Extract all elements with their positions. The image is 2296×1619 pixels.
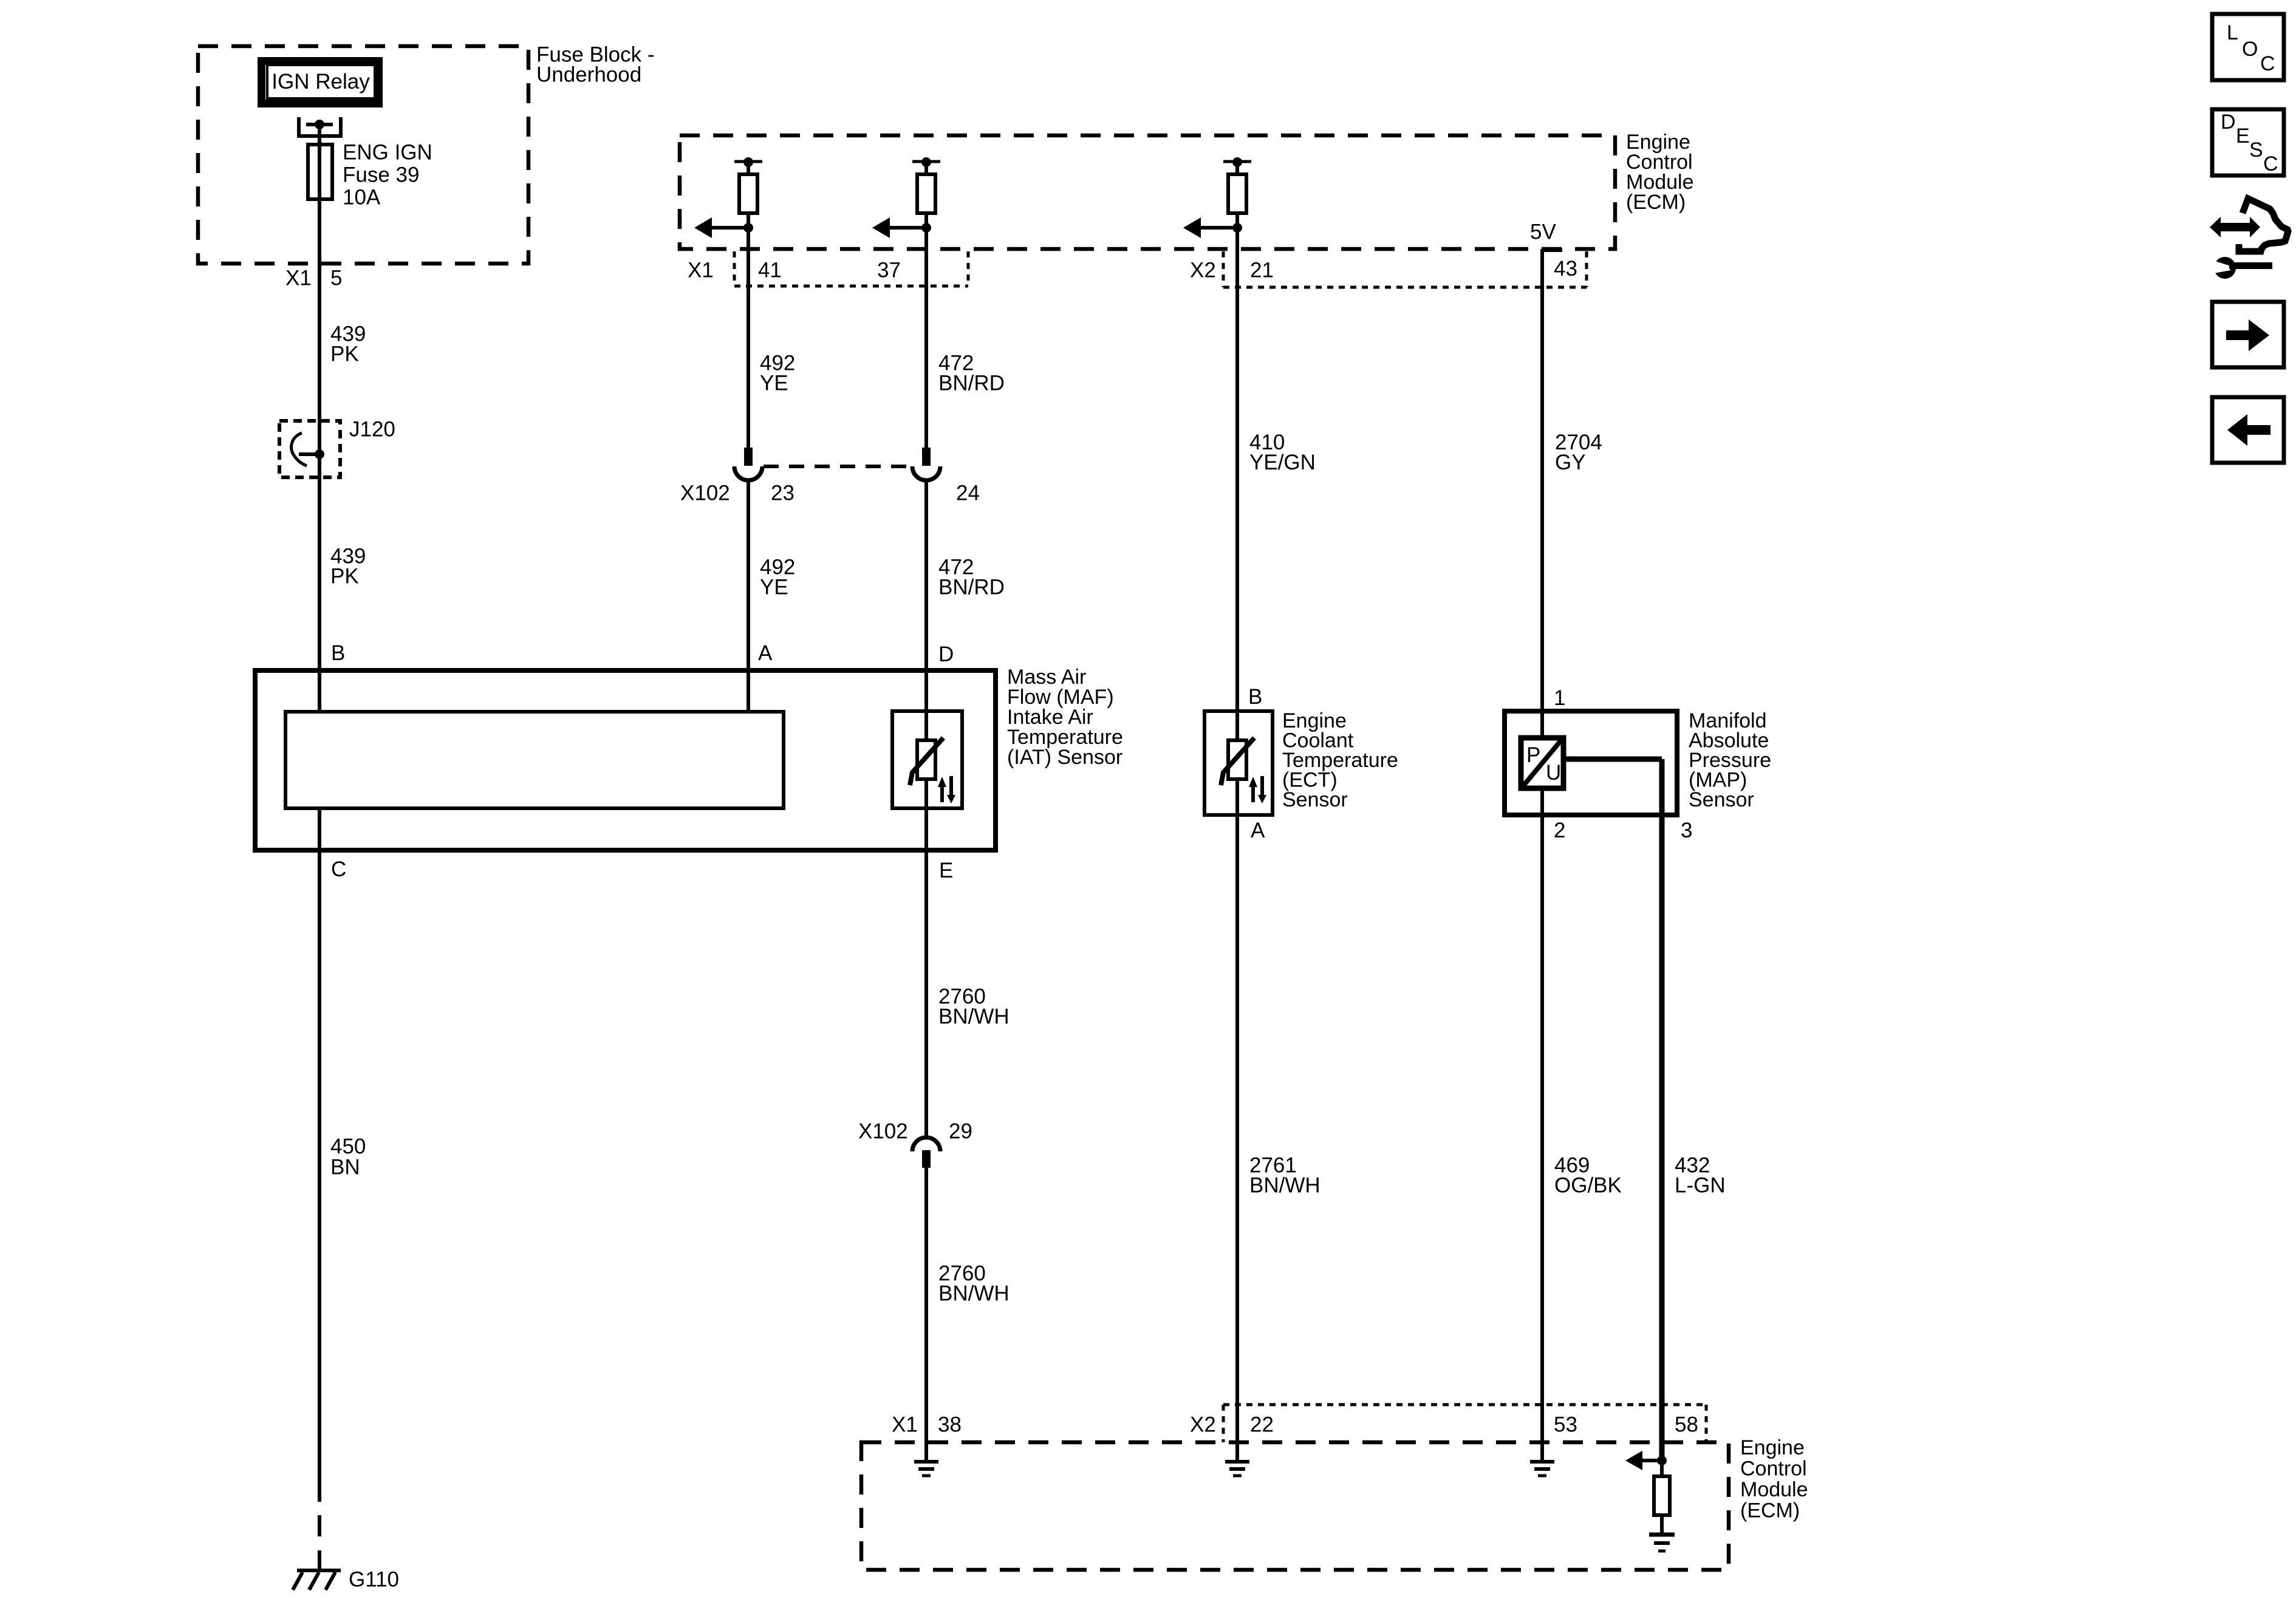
svg-text:X1: X1 <box>892 1413 918 1437</box>
svg-text:L-GN: L-GN <box>1675 1174 1726 1198</box>
svg-text:2: 2 <box>1554 819 1565 842</box>
svg-text:BN/RD: BN/RD <box>938 576 1005 599</box>
svg-text:U: U <box>1546 761 1561 785</box>
svg-text:38: 38 <box>938 1413 962 1437</box>
svg-text:3: 3 <box>1681 819 1692 842</box>
svg-text:C: C <box>331 857 346 881</box>
svg-text:A: A <box>758 641 773 665</box>
svg-text:(ECM): (ECM) <box>1626 191 1686 214</box>
svg-text:IGN Relay: IGN Relay <box>272 70 370 94</box>
svg-text:X2: X2 <box>1190 1413 1216 1437</box>
svg-text:24: 24 <box>956 482 980 505</box>
svg-text:22: 22 <box>1250 1413 1274 1437</box>
svg-text:43: 43 <box>1554 257 1577 281</box>
svg-text:YE/GN: YE/GN <box>1249 451 1316 474</box>
svg-text:Underhood: Underhood <box>536 63 641 87</box>
svg-text:Control: Control <box>1740 1457 1807 1481</box>
svg-text:41: 41 <box>758 259 782 282</box>
svg-text:YE: YE <box>760 576 788 599</box>
svg-text:D: D <box>938 642 954 666</box>
svg-text:37: 37 <box>877 259 901 282</box>
svg-text:G110: G110 <box>349 1568 399 1592</box>
svg-text:X2: X2 <box>1190 259 1216 282</box>
svg-text:OG/BK: OG/BK <box>1554 1174 1622 1198</box>
svg-text:S: S <box>2249 138 2263 162</box>
svg-text:Engine: Engine <box>1740 1436 1805 1459</box>
svg-text:23: 23 <box>771 482 794 505</box>
svg-text:ENG IGN: ENG IGN <box>343 141 432 165</box>
svg-text:C: C <box>2263 152 2278 176</box>
svg-text:A: A <box>1251 819 1265 842</box>
svg-text:B: B <box>1248 685 1262 709</box>
svg-text:X1: X1 <box>285 267 312 290</box>
svg-text:Fuse 39: Fuse 39 <box>343 163 419 187</box>
svg-text:PK: PK <box>330 343 359 366</box>
svg-text:(IAT) Sensor: (IAT) Sensor <box>1007 746 1122 769</box>
svg-text:D: D <box>2221 111 2236 134</box>
svg-text:5V: 5V <box>1530 220 1556 244</box>
svg-text:10A: 10A <box>343 186 381 210</box>
svg-text:E: E <box>2236 124 2250 148</box>
svg-text:BN/WH: BN/WH <box>1249 1174 1321 1198</box>
svg-text:BN: BN <box>330 1156 360 1179</box>
svg-text:X102: X102 <box>858 1120 908 1144</box>
svg-text:Sensor: Sensor <box>1282 788 1348 811</box>
svg-text:53: 53 <box>1554 1413 1577 1437</box>
svg-text:P: P <box>1526 743 1540 767</box>
svg-text:(ECM): (ECM) <box>1740 1499 1800 1522</box>
svg-text:BN/RD: BN/RD <box>938 372 1005 395</box>
svg-text:YE: YE <box>760 372 788 395</box>
svg-text:PK: PK <box>330 565 359 588</box>
svg-text:C: C <box>2260 52 2275 75</box>
svg-text:21: 21 <box>1250 259 1274 282</box>
svg-text:GY: GY <box>1555 451 1586 474</box>
svg-text:BN/WH: BN/WH <box>938 1005 1010 1029</box>
svg-text:Module: Module <box>1740 1478 1808 1501</box>
svg-text:5: 5 <box>330 267 342 290</box>
svg-text:L: L <box>2227 21 2238 44</box>
svg-text:Sensor: Sensor <box>1689 788 1754 811</box>
svg-text:X102: X102 <box>680 482 730 505</box>
svg-text:B: B <box>331 641 345 665</box>
svg-text:BN/WH: BN/WH <box>938 1282 1010 1306</box>
svg-text:58: 58 <box>1675 1413 1698 1437</box>
svg-text:29: 29 <box>949 1120 972 1144</box>
svg-text:X1: X1 <box>688 259 714 282</box>
svg-text:J120: J120 <box>349 418 395 441</box>
svg-text:O: O <box>2242 38 2258 61</box>
svg-text:E: E <box>939 859 953 882</box>
svg-text:1: 1 <box>1554 686 1565 710</box>
